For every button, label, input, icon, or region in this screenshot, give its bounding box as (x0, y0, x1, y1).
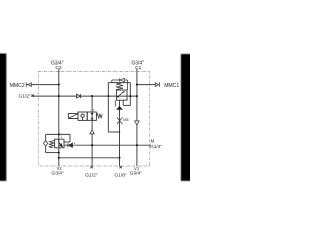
relief valve spring (116, 83, 124, 90)
flow arrow on D line (135, 121, 140, 125)
svg-text:1: 1 (74, 141, 76, 145)
node A-MMC2 junction (58, 84, 60, 86)
relief valve drain stub (114, 100, 116, 106)
pressure reducing valve V-left outer loop (46, 134, 70, 152)
node valve-loop top junction (58, 133, 60, 135)
node B-M-line junction (91, 144, 93, 146)
svg-text:G3/4": G3/4" (51, 170, 64, 176)
relief valve internal arrow (117, 91, 125, 98)
wire vertical B solenoid G1/2 (91, 96, 93, 166)
svg-text:M: M (151, 139, 155, 144)
check valve CV1 on main line (77, 94, 81, 98)
svg-text:MMC2: MMC2 (10, 83, 25, 89)
svg-text:C2: C2 (55, 65, 62, 71)
drain diamond of valve V-left (44, 141, 48, 147)
wire vertical C relief drain G1/8 (119, 100, 121, 166)
solenoid valve SV1 body (78, 112, 96, 120)
node C-bus junction (118, 157, 120, 159)
solenoid valve SV1 actuator box (68, 114, 78, 119)
valve V-left spring (49, 140, 55, 147)
wire vertical D C1-V1 (136, 69, 138, 166)
node D-M-line junction (136, 144, 138, 146)
port MMC2 symbol (26, 82, 31, 86)
pilot arrow filled triangle (116, 106, 123, 110)
port MMC1 symbol (155, 82, 159, 86)
port G1/8 bottom x-mark (120, 166, 122, 168)
solenoid valve SV1 spring (96, 114, 102, 119)
check valve CV3 bypass branch (112, 78, 128, 90)
svg-text:M5: M5 (123, 118, 128, 122)
relief valve body square (116, 90, 127, 100)
wire vertical A C2-V2 (58, 69, 60, 166)
valve V-left body square (55, 139, 64, 148)
svg-text:MMC1: MMC1 (164, 83, 179, 89)
node relief right leg main junction (129, 95, 131, 97)
port G1/2 bottom x-mark (90, 166, 92, 168)
drain arrow on B line (90, 130, 94, 134)
right black bar (181, 54, 191, 181)
wire bottom bus (59, 157, 120, 159)
dashed enclosure border (38, 71, 149, 166)
node C-drain junction (119, 131, 121, 133)
left black bar (0, 54, 6, 181)
node valve-loop bottom junction (58, 152, 60, 154)
node D-main junction (136, 95, 138, 97)
port G1/2 left x-mark (32, 94, 34, 96)
solenoid valve SV1 poppet (91, 113, 94, 116)
node B-main junction (91, 95, 93, 97)
node A-bus junction (58, 157, 60, 159)
node D-MMC1 junction (136, 84, 138, 86)
wire main G1/2 line (32, 95, 137, 97)
check valve CV2 on M line (68, 143, 73, 147)
svg-text:C1: C1 (135, 65, 142, 71)
wire MMC2 line (26, 84, 59, 86)
wire M line (64, 144, 148, 146)
svg-text:G1/2": G1/2" (85, 172, 98, 178)
svg-text:G1/2": G1/2" (18, 94, 30, 100)
svg-text:V2: V2 (57, 166, 63, 171)
svg-text:1: 1 (61, 135, 63, 139)
wire MMC1 line (137, 84, 155, 86)
port M x-mark (149, 145, 151, 147)
node drain-main junction (107, 95, 109, 97)
svg-text:G3/4": G3/4" (130, 170, 143, 176)
relief valve assembly RV outer pilot lines (108, 83, 130, 132)
valve V-left internal arrow (59, 140, 63, 147)
svg-text:G1/8": G1/8" (114, 172, 127, 178)
svg-text:V1: V1 (134, 166, 140, 171)
svg-text:G1/4": G1/4" (150, 144, 162, 150)
orifice M5 (117, 117, 123, 124)
node A-main junction (58, 95, 60, 97)
